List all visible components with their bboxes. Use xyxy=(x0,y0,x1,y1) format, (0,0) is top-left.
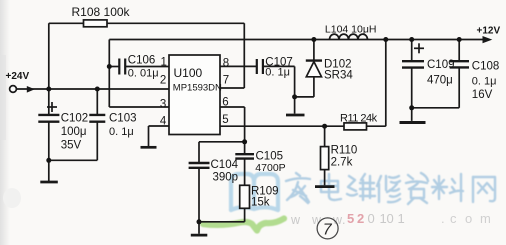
svg-text:o: o xyxy=(465,211,472,226)
svg-text:6: 6 xyxy=(222,97,228,109)
wire: ground lead bottom node xyxy=(198,222,200,234)
ground (R110) xyxy=(315,185,335,188)
resistor R108 xyxy=(84,20,108,27)
wire: C102/C103 ground link xyxy=(49,159,98,161)
capacitor C104 xyxy=(189,163,210,168)
svg-text:0: 0 xyxy=(387,211,394,226)
svg-text:4: 4 xyxy=(160,116,167,128)
node: C102/C103 ground junction xyxy=(46,158,51,163)
watermark char 维 xyxy=(347,174,375,200)
ground (C104/R109) xyxy=(191,234,208,237)
svg-text:0: 0 xyxy=(368,211,375,226)
wire: C108 bottom lead xyxy=(458,68,460,108)
svg-text:470μ: 470μ xyxy=(427,75,453,87)
capacitor C107 xyxy=(257,59,263,74)
svg-text:m: m xyxy=(480,211,491,226)
svg-text:C103: C103 xyxy=(109,113,137,125)
svg-text:1: 1 xyxy=(398,211,405,226)
svg-text:16V: 16V xyxy=(472,89,493,101)
wire: left vertical rail to pin 3 xyxy=(108,40,110,108)
node: FB divider junction xyxy=(322,124,327,129)
svg-text:0. 01μ: 0. 01μ xyxy=(128,68,159,80)
svg-text:2: 2 xyxy=(357,211,364,226)
svg-text:8: 8 xyxy=(223,57,229,69)
wire: +24V input line to pin 2 xyxy=(16,88,169,90)
wire: C105 top lead xyxy=(244,142,246,154)
watermark url text xyxy=(290,213,345,227)
wire: C109 top lead xyxy=(411,40,413,61)
watermark green swoosh xyxy=(203,219,284,231)
wire: C109/C108 ground link xyxy=(412,107,460,109)
svg-text:C102: C102 xyxy=(61,113,88,125)
capacitor C106 xyxy=(119,59,125,75)
capacitor C109 (electrolytic, +) xyxy=(402,61,424,67)
node: C104/R109 ground junction xyxy=(197,219,202,224)
wire: vertical from R108 down to pin 7 xyxy=(243,23,245,88)
capacitor C105 xyxy=(235,154,254,158)
wire: C105 to R109 lead xyxy=(244,159,246,185)
wire: C108 top lead xyxy=(458,40,460,61)
capacitor C108 xyxy=(450,61,469,67)
svg-text:U100: U100 xyxy=(174,66,203,80)
svg-text:35V: 35V xyxy=(61,140,82,152)
wire: pin 1 stub from C106 xyxy=(126,66,169,68)
wire: R11 right lead xyxy=(367,125,386,127)
svg-text:MP1593DN: MP1593DN xyxy=(173,83,222,94)
watermark char 资 xyxy=(406,173,428,204)
svg-text:R108 100k: R108 100k xyxy=(72,5,131,19)
resistor R110 xyxy=(321,147,329,170)
wire: R109 bottom to ground node xyxy=(199,221,245,223)
svg-text:.: . xyxy=(342,213,345,227)
svg-text:L104 10μH: L104 10μH xyxy=(325,24,377,36)
wire: output ground drop xyxy=(411,108,413,121)
ground (C107/D102) xyxy=(286,114,305,117)
wire: pin 4 ground drop xyxy=(148,126,150,146)
wire: R109 bottom lead xyxy=(244,208,246,222)
ground (C102/C103) xyxy=(40,181,58,184)
input terminal +24V xyxy=(10,86,17,93)
wire: C107 right lead xyxy=(263,65,294,67)
wire: pin 7 stub xyxy=(220,87,244,89)
wire: pin 6 drop to comp node xyxy=(244,107,246,142)
node: rail / C109 xyxy=(409,37,414,42)
wire: R108 right horizontal to pin7 drop xyxy=(107,22,244,24)
wire: pin 8 stub to C107 xyxy=(220,65,256,67)
input arrow xyxy=(27,86,35,93)
wire: ground lead below node xyxy=(294,97,296,114)
svg-text:C108: C108 xyxy=(472,61,500,73)
svg-text:R11 24k: R11 24k xyxy=(340,113,378,125)
watermark char 修 xyxy=(377,176,400,202)
node: rail / R11 riser xyxy=(383,37,388,42)
diode D102 SR34 xyxy=(306,59,322,61)
watermark char 网 xyxy=(473,177,495,202)
wire: C104 bottom lead xyxy=(198,168,200,222)
wire: R110 bottom lead xyxy=(324,170,326,186)
svg-text:100μ: 100μ xyxy=(61,126,87,138)
svg-text:C105: C105 xyxy=(256,151,284,163)
wire: D102 anode lead xyxy=(313,77,315,97)
svg-text:0. 1μ: 0. 1μ xyxy=(265,67,290,79)
wire: C103 bottom lead xyxy=(96,123,98,161)
capacitor C103 xyxy=(89,115,105,122)
resistor R11 xyxy=(344,123,367,130)
svg-text:5: 5 xyxy=(222,114,228,126)
wire: SW top rail xyxy=(109,39,484,41)
watermark char 家 xyxy=(286,173,310,203)
watermark char 电 xyxy=(321,174,341,200)
svg-text:7: 7 xyxy=(223,74,229,86)
svg-text:4700P: 4700P xyxy=(255,162,285,174)
wire: C102 bottom lead xyxy=(48,123,50,182)
svg-text:C109: C109 xyxy=(427,59,455,71)
wire: C107 drop to ground node xyxy=(294,66,296,97)
svg-text:5: 5 xyxy=(347,211,354,226)
node: C106/pin3 rail junction xyxy=(107,64,112,69)
ground (C109/C108) xyxy=(400,121,426,124)
svg-text:+12V: +12V xyxy=(477,26,501,37)
node: SW rail / D102 xyxy=(311,37,316,42)
wire: pin 6 stub xyxy=(220,106,245,108)
wire: comp node to C104 branch xyxy=(199,141,245,143)
svg-text:+24V: +24V xyxy=(6,71,30,82)
svg-text:w: w xyxy=(290,213,301,227)
svg-text:R110: R110 xyxy=(331,145,358,157)
watermark book logo xyxy=(231,174,278,210)
node: C107/D102 ground junction xyxy=(292,94,297,99)
node: input/R108/C102 junction xyxy=(46,87,51,92)
wire: ground node to D102 anode xyxy=(295,96,314,98)
wire: R110 top lead xyxy=(324,126,326,146)
svg-text:1: 1 xyxy=(161,57,167,69)
capacitor C102 (electrolytic, +) xyxy=(38,115,59,122)
svg-text:.: . xyxy=(441,211,445,226)
watermark char 料 xyxy=(432,174,463,201)
svg-text:2: 2 xyxy=(160,74,166,86)
wire: pin 5 feedback line xyxy=(220,125,344,127)
wire: C104 top lead xyxy=(198,142,200,163)
svg-text:C106: C106 xyxy=(128,55,156,67)
IC U100 MP1593DN xyxy=(169,55,220,135)
svg-text:C104: C104 xyxy=(211,159,239,171)
node: comp network junction xyxy=(242,139,247,144)
wire: D102 cathode lead xyxy=(313,40,315,61)
wire: pin 4 stub xyxy=(149,125,170,127)
output arrow +12V xyxy=(483,36,493,43)
page number circled 7 xyxy=(317,218,338,239)
wire: C102 top lead xyxy=(48,89,50,114)
resistor R109 xyxy=(240,185,250,208)
svg-text:15k: 15k xyxy=(251,197,270,209)
wire: C109 bottom lead xyxy=(411,68,413,108)
svg-text:2.7k: 2.7k xyxy=(331,157,353,169)
wire: R108 left vertical xyxy=(48,23,50,89)
wire: C106 left lead xyxy=(109,66,119,68)
svg-text:SR34: SR34 xyxy=(324,70,353,82)
inductor L104 xyxy=(330,34,368,39)
svg-text:7: 7 xyxy=(323,222,333,239)
svg-text:3: 3 xyxy=(160,99,166,111)
svg-text:0. 1μ: 0. 1μ xyxy=(109,126,134,138)
wire: pin 3 stub xyxy=(109,106,169,108)
node: input/C103 junction xyxy=(95,87,100,92)
svg-text:c: c xyxy=(450,211,457,226)
wire: C103 top lead xyxy=(96,89,98,114)
node: rail / C108 xyxy=(457,37,462,42)
wire: R11 right lead up to +12V rail xyxy=(385,40,387,127)
ground (pin 4) xyxy=(141,146,157,149)
wire: R108 left horizontal xyxy=(49,22,84,24)
svg-text:390p: 390p xyxy=(213,172,239,184)
node: C109/C108 ground junction xyxy=(409,105,414,110)
svg-text:0. 1μ: 0. 1μ xyxy=(472,76,497,88)
